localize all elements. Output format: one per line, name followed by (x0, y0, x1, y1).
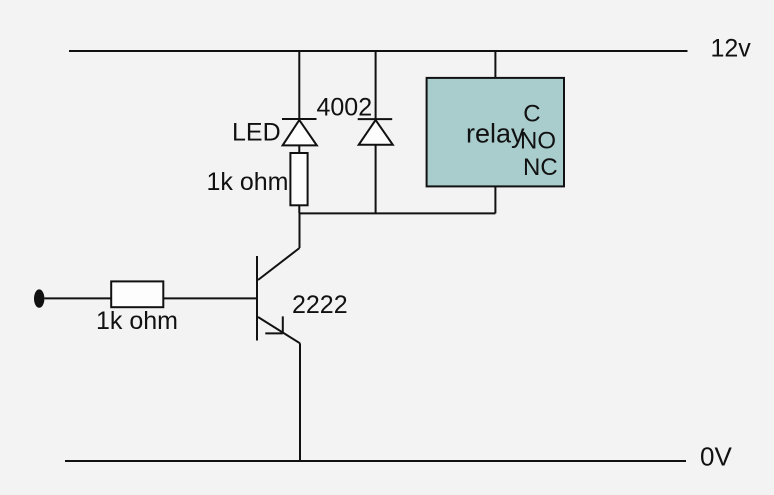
resistor R1 1k ohm (horizontal) (111, 281, 163, 307)
transistor Q1 collector stroke (258, 248, 300, 280)
wire: R2 bottom to collector node (298, 205, 300, 213)
wire: relay coil down to collector node (494, 186, 496, 213)
transistor Q1 emitter arrow (265, 316, 283, 333)
diode LED cathode bar (282, 118, 317, 120)
diode D2 4002 triangle (359, 120, 393, 145)
svg-text:NC: NC (523, 154, 558, 181)
wire: 0V bottom rail (65, 460, 686, 462)
wire: LED branch from 12V rail (298, 51, 300, 119)
svg-text:relay: relay (466, 118, 525, 148)
transistor Q1 emitter stroke (258, 317, 300, 343)
svg-text:NO: NO (520, 128, 556, 155)
diode LED triangle (283, 120, 317, 145)
svg-text:1k ohm: 1k ohm (207, 168, 289, 196)
svg-text:4002: 4002 (317, 93, 373, 121)
wire: +12V top rail (69, 50, 688, 52)
wire: collector node horizontal (299, 212, 495, 214)
svg-text:12v: 12v (711, 35, 752, 63)
svg-text:2222: 2222 (292, 291, 348, 319)
diode D2 4002 cathode bar (358, 118, 393, 120)
wire: LED to resistor R2 (298, 145, 300, 153)
transistor Q1 2222 base bar (256, 256, 258, 341)
svg-text:1k ohm: 1k ohm (96, 307, 178, 335)
svg-text:LED: LED (232, 118, 281, 146)
input terminal dot (34, 289, 44, 307)
relay K1 box (427, 78, 564, 186)
wire: 4002 branch from 12V rail (375, 51, 377, 119)
wire: 4002 anode down to node (375, 145, 377, 214)
wire: emitter down to 0V rail (299, 343, 301, 461)
wire: input to R1 (44, 297, 111, 299)
svg-text:0V: 0V (700, 442, 732, 472)
wire: base from R1 to Q1 (163, 297, 257, 299)
svg-text:C: C (523, 100, 540, 127)
resistor R2 1k ohm (vertical) (290, 153, 307, 205)
wire: collector up to node (299, 213, 301, 248)
wire: relay coil to 12V rail (494, 51, 496, 78)
